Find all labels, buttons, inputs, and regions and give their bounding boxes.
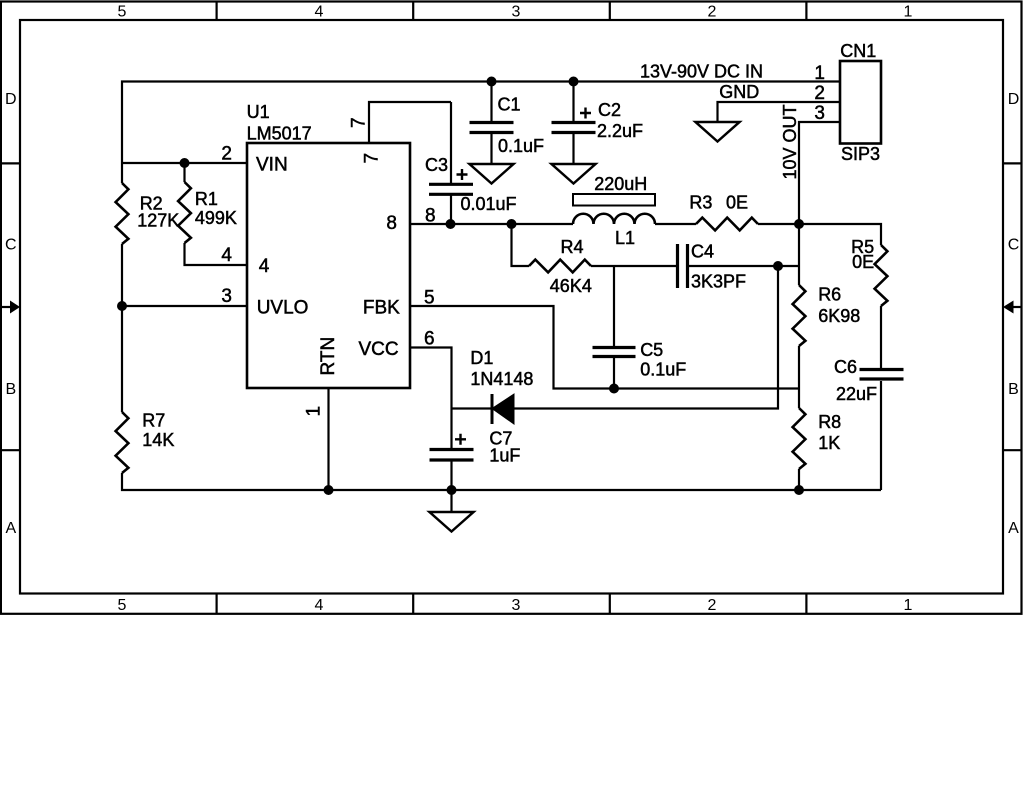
svg-text:FBK: FBK: [363, 298, 400, 319]
svg-text:C: C: [1008, 237, 1020, 254]
svg-text:127K: 127K: [137, 211, 179, 231]
svg-text:VIN: VIN: [256, 155, 288, 176]
svg-text:4: 4: [259, 256, 270, 277]
svg-text:C2: C2: [598, 100, 621, 120]
svg-text:4: 4: [315, 4, 324, 21]
svg-text:6: 6: [424, 329, 435, 350]
svg-text:C6: C6: [834, 357, 857, 377]
svg-text:4: 4: [221, 245, 232, 266]
svg-text:SIP3: SIP3: [841, 144, 880, 164]
svg-text:C: C: [5, 237, 17, 254]
svg-text:2: 2: [221, 144, 232, 165]
svg-text:13V-90V DC IN: 13V-90V DC IN: [640, 62, 763, 82]
svg-text:499K: 499K: [195, 208, 237, 228]
svg-text:6K98: 6K98: [818, 306, 860, 326]
svg-text:C3: C3: [425, 155, 448, 175]
svg-text:R3: R3: [689, 193, 712, 213]
svg-text:B: B: [5, 381, 16, 398]
svg-text:C5: C5: [640, 340, 663, 360]
svg-text:22uF: 22uF: [836, 384, 877, 404]
svg-text:R7: R7: [142, 411, 165, 431]
svg-text:1uF: 1uF: [489, 446, 520, 466]
svg-text:4: 4: [315, 597, 324, 614]
svg-text:U1: U1: [247, 102, 270, 122]
svg-text:2.2uF: 2.2uF: [597, 121, 643, 141]
svg-text:1: 1: [814, 63, 825, 84]
svg-text:3: 3: [512, 597, 521, 614]
svg-text:2: 2: [814, 83, 825, 104]
svg-text:2: 2: [708, 597, 717, 614]
svg-text:0.1uF: 0.1uF: [498, 136, 544, 156]
svg-text:A: A: [5, 520, 16, 537]
svg-text:1N4148: 1N4148: [470, 369, 533, 389]
svg-text:1K: 1K: [818, 433, 840, 453]
svg-text:0.1uF: 0.1uF: [640, 360, 686, 380]
svg-text:1: 1: [904, 597, 913, 614]
svg-text:1: 1: [304, 406, 325, 417]
svg-text:14K: 14K: [142, 430, 174, 450]
svg-text:5: 5: [118, 4, 127, 21]
svg-text:D: D: [5, 91, 17, 108]
svg-text:R4: R4: [561, 237, 584, 257]
svg-text:L1: L1: [615, 228, 635, 248]
svg-text:220uH: 220uH: [594, 174, 647, 194]
svg-text:R8: R8: [818, 412, 841, 432]
svg-text:3: 3: [814, 103, 825, 124]
svg-text:10V OUT: 10V OUT: [780, 104, 800, 179]
svg-text:3: 3: [221, 286, 232, 307]
svg-text:2: 2: [708, 4, 717, 21]
svg-text:B: B: [1008, 381, 1019, 398]
svg-text:8: 8: [386, 213, 397, 234]
svg-text:3: 3: [512, 4, 521, 21]
svg-text:0E: 0E: [852, 252, 874, 272]
svg-text:C4: C4: [691, 242, 714, 262]
svg-text:LM5017: LM5017: [247, 124, 312, 144]
svg-text:5: 5: [424, 288, 435, 309]
svg-text:D1: D1: [470, 348, 493, 368]
svg-text:3K3PF: 3K3PF: [691, 272, 746, 292]
svg-text:RTN: RTN: [318, 337, 339, 376]
svg-text:46K4: 46K4: [550, 276, 592, 296]
svg-text:R1: R1: [195, 189, 218, 209]
svg-text:C1: C1: [498, 95, 521, 115]
svg-text:D: D: [1008, 91, 1020, 108]
svg-text:CN1: CN1: [840, 41, 876, 61]
svg-text:R6: R6: [818, 285, 841, 305]
svg-text:5: 5: [118, 597, 127, 614]
svg-text:7: 7: [348, 117, 369, 128]
svg-text:1: 1: [904, 4, 913, 21]
svg-text:8: 8: [425, 206, 436, 227]
svg-text:UVLO: UVLO: [257, 298, 309, 319]
svg-text:VCC: VCC: [358, 339, 398, 360]
svg-text:0.01uF: 0.01uF: [461, 194, 517, 214]
svg-text:A: A: [1008, 520, 1019, 537]
svg-text:0E: 0E: [726, 193, 748, 213]
svg-text:7: 7: [362, 153, 383, 164]
svg-text:GND: GND: [719, 82, 759, 102]
